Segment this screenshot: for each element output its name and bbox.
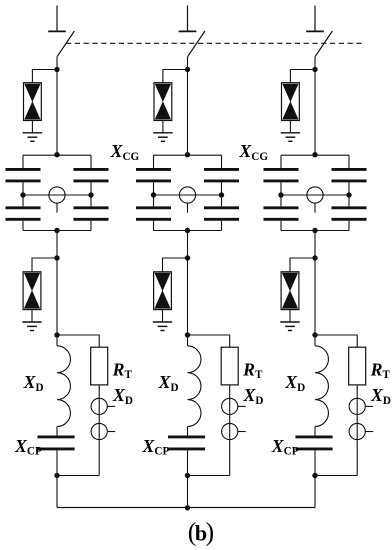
svg-text:XD: XD [23, 372, 44, 394]
wire (bridge right rail, phase B) [221, 155, 223, 230]
wire (lower arrester to ground, phase A) [31, 310, 33, 322]
svg-text:XCG: XCG [238, 141, 268, 163]
capacitor (upper right of X_CG bridge, phase A) [74, 169, 109, 181]
inductor X_D (phase A) [57, 346, 70, 427]
wire (electrode tick 1, phase C) [365, 405, 373, 407]
terminal (phase B) [179, 6, 197, 32]
wire (bridge bottom rail, phase C) [281, 230, 349, 232]
node (bottom junction, phase C) [312, 473, 317, 478]
node (lower arrester junction, phase C) [312, 255, 317, 260]
wire (damping branch return, phase B) [188, 475, 230, 477]
capacitor (lower left of X_CG bridge, phase A) [6, 208, 41, 220]
wire (bridge top rail, phase A) [23, 154, 91, 156]
wire (bridge middle link, phase A) [23, 194, 91, 196]
spark gap / detector circle (phase A) [49, 187, 65, 203]
wire (bridge middle link, phase C) [281, 194, 349, 196]
wire (branch to damping resistor, phase B) [188, 335, 230, 347]
capacitor (upper right of X_CG bridge, phase B) [204, 169, 239, 181]
wire (inductor to capacitor, phase A) [56, 427, 58, 436]
svg-text:XCP: XCP [142, 436, 170, 458]
svg-text:XD: XD [284, 372, 305, 394]
svg-text:XCP: XCP [271, 436, 299, 458]
capacitor (upper left of X_CG bridge, phase A) [6, 169, 41, 181]
wire (arrester to ground, phase B) [162, 121, 164, 133]
node (bridge mid-left, phase B) [151, 192, 156, 197]
svg-text:RT: RT [112, 360, 133, 382]
wire (branch to damping resistor, phase A) [57, 335, 99, 347]
wire (capacitor to bus, phase A) [56, 450, 58, 507]
surge arrester upper, phase A [24, 83, 42, 121]
node (lower arrester junction, phase A) [54, 255, 59, 260]
node (damping branch junction, phase C) [312, 332, 317, 337]
wire (branch to lower arrester, phase B) [163, 258, 188, 272]
node (bridge top, phase B) [185, 152, 190, 157]
node (damping branch junction, phase A) [54, 332, 59, 337]
terminal (phase A) [48, 6, 66, 32]
node (bridge bottom, phase B) [185, 228, 190, 233]
wire (electrode tick 1, phase A) [107, 405, 115, 407]
node (bridge mid-right, phase B) [219, 192, 224, 197]
ground upper arrester, phase A [23, 133, 42, 142]
wire (bridge left rail, phase B) [153, 155, 155, 230]
gap X_D circle 1 (phase A) [91, 398, 107, 414]
svg-text:XD: XD [158, 372, 179, 394]
wire (phase A drop to bridge) [56, 57, 58, 155]
ground upper arrester, phase C [281, 133, 300, 142]
wire (bridge bottom rail, phase B) [154, 230, 222, 232]
wire (electrode tick 1, phase B) [238, 405, 246, 407]
capacitor X_CP (phase B) [168, 437, 205, 449]
wire (resistor branch lower, phase B) [229, 385, 231, 476]
wire (damping branch return, phase A) [57, 475, 99, 477]
capacitor X_CP (phase C) [296, 437, 333, 449]
wire (gap electrode stub, phase A) [56, 203, 58, 213]
wire (branch to upper arrester, phase B) [163, 70, 188, 83]
surge arrester upper, phase B [154, 83, 172, 121]
terminal (phase C) [306, 6, 324, 32]
wire (neutral bus) [57, 507, 315, 509]
ground lower arrester, phase B [153, 322, 172, 331]
surge arrester lower, phase B [154, 272, 172, 310]
dashed tie line across disconnect switches [66, 42, 362, 44]
wire (damping branch return, phase C) [315, 475, 357, 477]
wire (electrode tick 2, phase C) [365, 431, 373, 433]
resistor R_T (phase C) [349, 347, 366, 385]
resistor R_T (phase B) [221, 347, 238, 385]
node (bridge mid-right, phase A) [88, 192, 93, 197]
surge arrester upper, phase C [282, 83, 300, 121]
gap circle 2 (phase B) [222, 423, 238, 439]
node (neutral bus centre) [185, 505, 190, 510]
node (bottom junction, phase B) [185, 473, 190, 478]
gap X_D circle 1 (phase B) [222, 398, 238, 414]
wire (branch to upper arrester, phase C) [290, 70, 315, 83]
capacitor X_CP (phase A) [38, 437, 75, 449]
node (bottom junction, phase A) [54, 473, 59, 478]
wire (bridge bottom rail, phase A) [23, 230, 91, 232]
wire (phase C drop to bridge) [314, 57, 316, 155]
wire (gap electrode stub, phase B) [187, 203, 189, 213]
capacitor (upper left of X_CG bridge, phase C) [264, 169, 299, 181]
resistor R_T (phase A) [91, 347, 108, 385]
svg-text:XCG: XCG [110, 141, 140, 163]
capacitor (lower right of X_CG bridge, phase B) [204, 208, 239, 220]
svg-text:RT: RT [242, 360, 263, 382]
surge arrester lower, phase A [23, 272, 41, 310]
wire (electrode tick 2, phase A) [107, 431, 115, 433]
wire (branch to damping resistor, phase C) [315, 335, 357, 347]
wire (bridge right rail, phase C) [348, 155, 350, 230]
capacitor (lower left of X_CG bridge, phase C) [264, 208, 299, 220]
node (bridge mid-left, phase C) [278, 192, 283, 197]
wire (resistor branch lower, phase A) [98, 385, 100, 476]
wire (branch to lower arrester, phase C) [290, 258, 315, 272]
capacitor (upper left of X_CG bridge, phase B) [136, 169, 171, 181]
disconnect switch blade (phase B) [188, 31, 205, 57]
wire (bridge top rail, phase B) [154, 154, 222, 156]
surge arrester lower, phase C [281, 272, 299, 310]
capacitor (lower left of X_CG bridge, phase B) [136, 208, 171, 220]
node (bridge top, phase A) [54, 152, 59, 157]
node (bridge bottom, phase C) [312, 228, 317, 233]
wire (resistor branch lower, phase C) [356, 385, 358, 476]
wire (arrester to ground, phase A) [31, 121, 33, 133]
inductor X_D (phase B) [188, 346, 201, 427]
wire (phase B main drop) [187, 231, 189, 346]
node (damping branch junction, phase B) [185, 332, 190, 337]
svg-text:XD: XD [112, 385, 133, 407]
node (phase B top junction) [185, 67, 190, 72]
ground lower arrester, phase A [22, 322, 41, 331]
gap X_D circle 1 (phase C) [349, 398, 365, 414]
node (phase A top junction) [54, 67, 59, 72]
wire (bridge right rail, phase A) [90, 155, 92, 230]
wire (gap electrode stub, phase C) [314, 203, 316, 213]
inductor X_D (phase C) [315, 346, 328, 427]
wire (capacitor to bus, phase C) [314, 450, 316, 507]
wire (electrode tick 2, phase B) [238, 431, 246, 433]
wire (phase B drop to bridge) [187, 57, 189, 155]
ground upper arrester, phase B [153, 133, 172, 142]
wire (arrester to ground, phase C) [289, 121, 291, 133]
spark gap / detector circle (phase B) [179, 187, 195, 203]
gap circle 2 (phase C) [349, 423, 365, 439]
gap circle 2 (phase A) [91, 423, 107, 439]
node (phase C top junction) [312, 67, 317, 72]
wire (branch to upper arrester, phase A) [32, 70, 57, 83]
capacitor (lower right of X_CG bridge, phase A) [74, 208, 109, 220]
node (bridge mid-left, phase A) [20, 192, 25, 197]
spark gap / detector circle (phase C) [307, 187, 323, 203]
node (lower arrester junction, phase B) [185, 255, 190, 260]
svg-text:XD: XD [243, 385, 264, 407]
wire (capacitor to bus, phase B) [187, 450, 189, 507]
wire (bridge left rail, phase A) [22, 155, 24, 230]
svg-text:(b): (b) [188, 518, 214, 547]
wire (inductor to capacitor, phase C) [314, 427, 316, 436]
disconnect switch blade (phase C) [315, 31, 332, 57]
wire (phase C main drop) [314, 231, 316, 346]
svg-text:RT: RT [370, 360, 391, 382]
capacitor (upper right of X_CG bridge, phase C) [332, 169, 367, 181]
disconnect switch blade (phase A) [57, 31, 74, 57]
wire (phase A main drop) [56, 231, 58, 346]
wire (bridge middle link, phase B) [154, 194, 222, 196]
wire (lower arrester to ground, phase C) [289, 310, 291, 322]
wire (bridge left rail, phase C) [280, 155, 282, 230]
wire (lower arrester to ground, phase B) [162, 310, 164, 322]
wire (branch to lower arrester, phase A) [32, 258, 57, 272]
ground lower arrester, phase C [280, 322, 299, 331]
capacitor (lower right of X_CG bridge, phase C) [332, 208, 367, 220]
wire (bridge top rail, phase C) [281, 154, 349, 156]
svg-text:XCP: XCP [14, 436, 42, 458]
wire (inductor to capacitor, phase B) [187, 427, 189, 436]
node (bridge bottom, phase A) [54, 228, 59, 233]
node (bridge mid-right, phase C) [346, 192, 351, 197]
svg-text:XD: XD [370, 385, 391, 407]
node (bridge top, phase C) [312, 152, 317, 157]
